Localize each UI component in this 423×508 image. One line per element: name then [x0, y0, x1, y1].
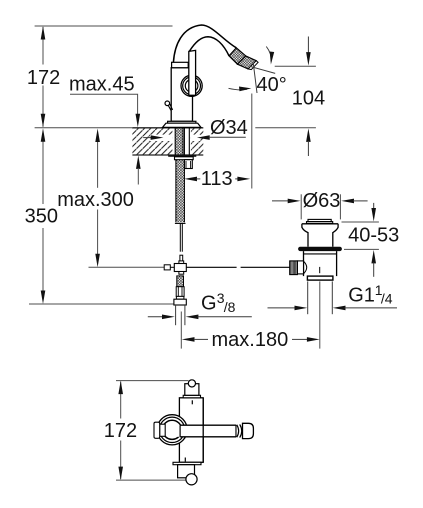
angle arc left leader with arrow: [229, 88, 248, 90]
dimension 172 top arrow: [41, 26, 46, 40]
dimension max.180 right arrow: [292, 338, 308, 340]
knurled adapter under joint: [177, 276, 184, 287]
mounting nut: [175, 157, 194, 160]
washer under deck: [168, 155, 196, 157]
waste flange brim and trumpet: [302, 223, 338, 225]
wire: max.45 leader underline: [70, 94, 138, 114]
dimension G1 1/4 right arrow: [333, 306, 346, 311]
dimension 104 top arrow: [307, 37, 309, 54]
svg-text:max.300: max.300: [57, 189, 134, 211]
base flange lower skirt: [163, 123, 202, 127]
pop-up rod lower section: [180, 255, 183, 263]
aerator ring band (hatched): [229, 48, 246, 64]
dimension max.300 bottom arrow: [95, 254, 100, 268]
dimension Ø63 extension lines: [300, 194, 302, 219]
plan handle left arm: [160, 424, 166, 436]
wire: outlet level reference line (right): [275, 65, 316, 67]
waste body bottom cap: [307, 276, 333, 280]
dimension 172 (side view height) line: [42, 27, 44, 65]
hose end fitting: [175, 222, 186, 224]
svg-text:172: 172: [27, 67, 60, 89]
plan aerator end cap: [243, 423, 254, 438]
aerator outlet nub: [248, 61, 258, 70]
aerator knurled tip block: [237, 56, 256, 69]
rod joint centre block: [179, 261, 184, 264]
wire: pop-up rod level line (left extension): [89, 266, 165, 268]
wire: waste centreline: [319, 281, 321, 348]
waste body below gasket: [303, 251, 305, 276]
svg-text:Ø34: Ø34: [210, 117, 248, 139]
dimension 40-53 bottom ref line + arrow: [344, 248, 379, 250]
plan body screw ticks: [191, 400, 193, 404]
dimension 113 left arrow: [184, 177, 197, 182]
dimension 172 (plan) top arrow: [118, 381, 123, 395]
pop-up rod upper section: [179, 223, 181, 251]
dimension 350 bottom arrow: [41, 291, 46, 305]
wire: outlet vertical extension line: [251, 94, 253, 189]
dimension Ø63 left leader+arrow: [272, 200, 289, 202]
wire: deck-top level extension (left of deck): [35, 127, 133, 129]
plan body rectangle: [179, 398, 203, 463]
dimension max.45 upper arrow: [136, 114, 141, 128]
plan top neck: [185, 384, 199, 396]
dimension 172 (plan) bottom arrow: [118, 467, 123, 481]
rod clevis left block: [164, 265, 170, 270]
plan handle hub escutcheon: [157, 415, 187, 445]
wire: plan bottom extension line: [116, 479, 186, 481]
dimension G3/8 right arrow: [186, 315, 199, 320]
dimension max.300 top arrow: [95, 129, 100, 143]
braided flexible hose: [176, 160, 185, 223]
dimension 40-53 top ref line + arrow: [342, 221, 379, 223]
dimension G1 1/4 left arrow: [268, 307, 298, 309]
svg-text:max.45: max.45: [69, 73, 135, 95]
svg-text:G1: G1: [348, 285, 375, 307]
threaded shank through deck: [175, 128, 183, 155]
svg-text:40-53: 40-53: [348, 224, 399, 246]
angle leg horizontal reference: [250, 66, 275, 73]
dimension 172 (plan) line: [120, 382, 122, 419]
plan bottom knob ball: [186, 474, 197, 485]
waste side inlet tube: [297, 261, 303, 274]
short hose stub connector: [184, 160, 192, 169]
horizontal pop-up rod (right piece): [241, 266, 290, 268]
waste rubber gasket: [298, 247, 342, 251]
spout inner curve: [189, 37, 229, 56]
wire: plan top extension line: [116, 380, 188, 382]
dimension 104 bottom arrow: [306, 128, 311, 142]
wire: deck level reference line (right): [255, 127, 316, 129]
supply tailpiece tube: [175, 305, 177, 325]
plan top collar: [183, 395, 200, 398]
svg-text:/8: /8: [224, 299, 236, 315]
lower cylinder section: [176, 287, 184, 297]
svg-text:/4: /4: [381, 290, 393, 306]
deck top surface line: [132, 127, 203, 129]
svg-text:113: 113: [201, 168, 233, 190]
dimension Ø34 left leader+arrow: [143, 137, 151, 139]
pop-up knob ball on body: [165, 101, 170, 106]
dimension max.300 line: [97, 141, 99, 188]
horizontal pop-up rod (left piece): [186, 266, 236, 268]
svg-text:172: 172: [104, 420, 137, 442]
pop-up rod tube through deck: [183, 128, 185, 155]
body top collar: [172, 62, 189, 67]
deck: right hatched block: [191, 128, 203, 155]
svg-text:104: 104: [292, 87, 325, 109]
dimension 113 right arrow: [235, 178, 238, 180]
plan bottom neck: [178, 465, 195, 478]
plan top knob ball: [188, 380, 195, 387]
dimension Ø34 right arrow+leader: [197, 135, 210, 140]
wire: top reference line (spout top level): [35, 25, 173, 27]
plan body right edge over spout: [202, 398, 204, 463]
spout outer curve: [173, 25, 236, 63]
plan spout tube: [176, 425, 236, 437]
deck bottom surface line: [132, 154, 203, 156]
base flange upper step: [168, 121, 196, 123]
pop-up knob lever: [168, 104, 172, 111]
G3/8 collar: [176, 296, 184, 299]
wire: hose-end level extension line: [29, 303, 174, 305]
angle arc upper with arrow: [266, 47, 271, 62]
handle hub circles (cross handle seen from side): [181, 75, 202, 96]
dimension 172 bottom arrow: [41, 114, 46, 128]
plan bottom collar: [173, 462, 201, 464]
svg-text:max.180: max.180: [212, 329, 289, 351]
dimension 350 line: [42, 141, 44, 204]
wire: G1 1/4 extension lines: [307, 281, 309, 314]
dimension G3/8 left arrow: [148, 316, 164, 318]
svg-text:G: G: [201, 293, 217, 315]
svg-text:Ø63: Ø63: [303, 190, 341, 212]
dimension 350 top arrow: [41, 128, 46, 142]
waste knurled coupling knob: [290, 261, 298, 275]
waste plug cap: [308, 219, 331, 221]
waste body centre tick: [319, 267, 321, 273]
dimension Ø63 right arrow+leader: [341, 199, 354, 204]
dimension max.45 lower arrow: [136, 155, 141, 169]
wire: faucet centreline lower: [180, 312, 182, 349]
plan aerator rings: [237, 425, 239, 438]
riser pipe (in front of hub): [189, 50, 196, 95]
G3/8 nut: [174, 299, 186, 305]
svg-text:350: 350: [25, 206, 58, 228]
svg-text:40°: 40°: [257, 74, 287, 96]
dimension max.180 left arrow: [182, 337, 195, 342]
faucet body (side view): [171, 68, 192, 122]
angle leg along spout axis: [253, 63, 257, 94]
deck: left hatched block: [132, 128, 172, 155]
